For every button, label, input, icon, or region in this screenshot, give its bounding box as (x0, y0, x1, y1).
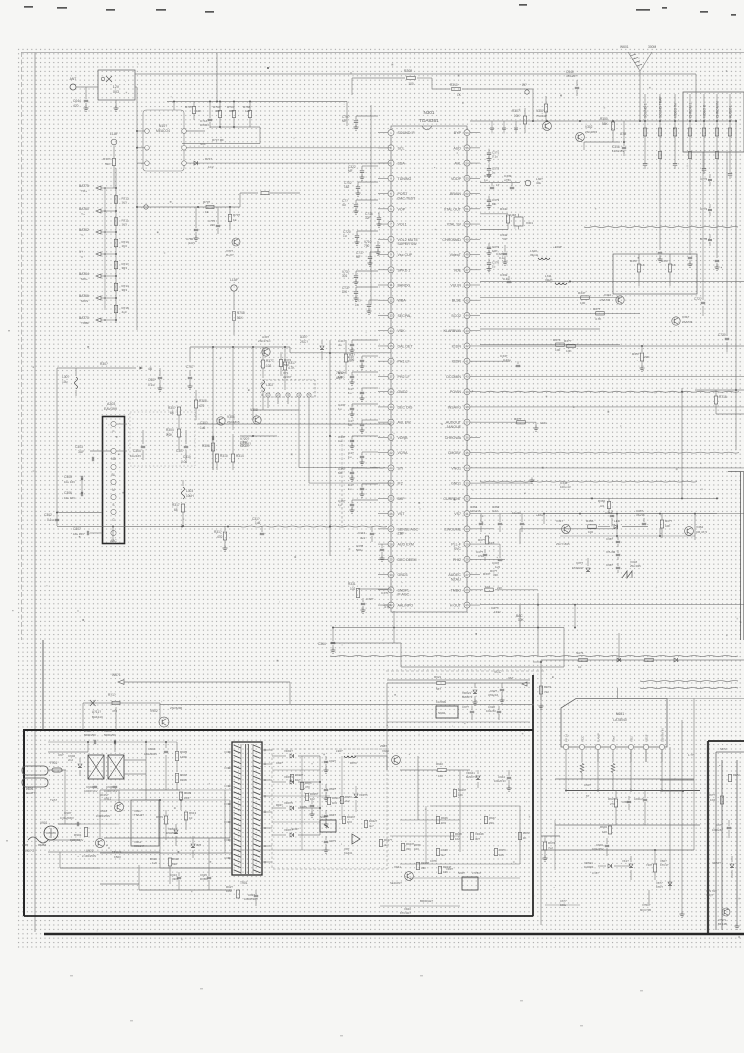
svg-text:CHROM 1: CHROM 1 (688, 103, 692, 118)
svg-text:DEC DIG: DEC DIG (398, 405, 413, 409)
svg-text:V941: V941 (394, 865, 401, 869)
svg-text:Y-: Y- (81, 233, 84, 237)
svg-text:R340: R340 (500, 207, 508, 211)
svg-text:MEACO4: MEACO4 (156, 129, 170, 133)
transistor V303 cluster (543, 122, 552, 131)
svg-text:360: 360 (215, 109, 220, 113)
page bottom heavy rule (44, 933, 744, 936)
svg-text:+100P: +100P (553, 245, 562, 249)
svg-text:BAT75: BAT75 (79, 184, 89, 188)
svg-text:10K: 10K (196, 109, 201, 113)
svg-text:C9?: C9? (58, 753, 64, 757)
svg-text:?N4148: ?N4148 (536, 114, 547, 118)
svg-text:1K6: 1K6 (347, 820, 352, 824)
svg-text:1K: 1K (523, 836, 527, 840)
svg-text:C94?: C94? (329, 813, 336, 817)
transistor V311 2SA733 (672, 317, 680, 325)
svg-text:R60?: R60? (608, 797, 615, 801)
svg-text:NZALI: NZALI (451, 577, 461, 581)
diode VD9?7 (272, 834, 286, 836)
capacitor C7? decoupling (356, 199, 378, 201)
svg-text:470: 470 (199, 404, 205, 408)
resistor R308 10K (523, 116, 526, 124)
svg-text:R6?4: R6?4 (548, 841, 555, 845)
svg-text:7u2: 7u2 (548, 846, 553, 850)
svg-text:4u7: 4u7 (441, 853, 446, 857)
svg-text:R34?: R34? (630, 259, 638, 263)
svg-text:470: 470 (217, 535, 223, 539)
mains plug X901 (22, 766, 48, 775)
svg-text:R?1?: R?1? (108, 693, 116, 697)
resistor R368 1K5 (480, 528, 494, 530)
svg-text:1u: 1u (355, 303, 359, 307)
svg-text:V?0?1: V?0?1 (718, 918, 727, 922)
wire left vertical x43 lower (42, 640, 44, 730)
svg-text:VD92?: VD92? (284, 749, 293, 753)
resistor R304 68 (177, 407, 180, 415)
IC pin 11 BANDG (388, 282, 394, 288)
resistor R9?9 (494, 849, 497, 856)
svg-text:BLSE: BLSE (452, 299, 462, 303)
svg-text:L1AF: L1AF (110, 132, 118, 136)
IC pin 52 BRAIN (464, 191, 470, 197)
transformer pins left (224, 751, 232, 753)
wires power input mesh (48, 751, 88, 753)
wire NB row y436 (240, 435, 277, 437)
right edge box top (683, 92, 744, 152)
svg-text:470u/6?: 470u/6? (566, 74, 577, 78)
svg-text:C36?: C36? (606, 563, 613, 567)
diode VD92? (272, 755, 286, 757)
svg-text:2.1PA/250V: 2.1PA/250V (82, 854, 96, 858)
wire secondary rows (272, 769, 320, 771)
svg-text:1000u/6?: 1000u/6? (712, 828, 723, 832)
svg-text:RMB4: RMB4 (38, 843, 47, 847)
svg-text:10M: 10M (226, 889, 232, 893)
wire secondary vertical x302 (301, 756, 303, 850)
svg-text:VD9?5: VD9?5 (284, 801, 293, 805)
svg-text:MO+: MO+ (81, 277, 88, 281)
resistor RS4 (438, 867, 441, 874)
svg-text:DCOMIN: DCOMIN (446, 375, 461, 379)
svg-text:SOUND IF: SOUND IF (398, 131, 416, 135)
svg-text:DXIRJ: DXIRJ (200, 123, 209, 127)
svg-text:0.1u: 0.1u (492, 155, 498, 159)
scan speckles (349, 548, 351, 550)
ground below tuner (115, 100, 117, 108)
wire power mesh y800 (100, 799, 230, 801)
IC pin 37 AUDOUT (464, 419, 470, 425)
svg-text:10K: 10K (458, 793, 463, 797)
svg-text:IO1IN: IO1IN (452, 344, 462, 348)
svg-text:102: 102 (295, 778, 300, 782)
svg-text:V30?: V30? (536, 109, 544, 113)
svg-text:KA7809: KA7809 (436, 700, 446, 704)
svg-text:TMBO: TMBO (451, 588, 462, 592)
wavy wire GND1 row (480, 480, 697, 483)
connector A303 EAV399 body (103, 417, 125, 544)
svg-text:790: 790 (364, 244, 370, 248)
scan marks top edge (24, 6, 33, 8)
svg-text:4u3: 4u3 (122, 310, 127, 314)
svg-text:10K: 10K (514, 114, 521, 118)
svg-text:PH2 LF: PH2 LF (398, 375, 411, 379)
driver sub box (131, 800, 159, 846)
wire left bus x57 (56, 368, 58, 526)
resistor R921 on vcc (437, 681, 446, 684)
svg-text:10: 10 (578, 665, 582, 669)
svg-text:10uH: 10uH (186, 494, 194, 498)
svg-text:AAL/NPO: AAL/NPO (398, 604, 414, 608)
IC pin 32 CURRENT (464, 495, 470, 501)
svg-text:PP 1A: PP 1A (564, 734, 568, 742)
capacitor C4? decoupling low (362, 355, 378, 357)
resistor R604 100 (608, 826, 611, 834)
resistor R377 103 (261, 360, 264, 368)
svg-text:PHI2: PHI2 (453, 558, 461, 562)
wire cluster to pin15 (289, 347, 291, 353)
svg-text:51K: 51K (237, 316, 244, 320)
IC pin 17 PH2 LF (388, 373, 394, 379)
IC pin 31 VS7 (464, 511, 470, 517)
scan marks bottom area (70, 975, 73, 976)
IC pin 10 SPKD 1 (388, 267, 394, 273)
svg-text:R308: R308 (199, 399, 207, 403)
plug X902 (28, 837, 48, 843)
IC pin 27 SENSE AGC (388, 526, 394, 532)
transistor V940 (392, 756, 401, 765)
svg-text:C93?: C93? (329, 787, 336, 791)
svg-text:1K6: 1K6 (710, 798, 716, 802)
svg-text:C604: C604 (596, 843, 603, 847)
svg-text:R30?: R30? (100, 362, 108, 366)
IC pin 2 SCL (388, 145, 394, 151)
resistor R702 1E (228, 215, 231, 222)
svg-text:1N4148: 1N4148 (166, 831, 176, 835)
svg-text:C910: C910 (100, 809, 108, 813)
svg-text:301: 301 (342, 274, 348, 278)
capacitor C3?3 right stub (488, 196, 490, 200)
node AUDIO L vertical (729, 94, 731, 170)
resistor R702 10K on rail (192, 107, 195, 114)
transistor V911 3DD (114, 802, 123, 811)
resistor R711 ladder (114, 218, 117, 226)
svg-text:1u: 1u (348, 359, 352, 363)
svg-text:R34?: R34? (578, 291, 586, 295)
svg-text:R31?: R31? (214, 530, 222, 534)
svg-text:10K: 10K (566, 349, 572, 353)
IC pin 19 DEC DIG (388, 404, 394, 410)
capacitor C3?5 right stub (488, 259, 490, 263)
svg-text:C904: C904 (148, 747, 156, 751)
IC pin 42 IO1IN (464, 343, 470, 349)
svg-text:3R5: 3R5 (196, 843, 202, 847)
wire SAW pin5 to BKP row (308, 398, 310, 484)
svg-text:10: 10 (189, 816, 193, 820)
svg-text:SE110N?: SE110N? (390, 881, 402, 885)
svg-text:R92?: R92? (276, 803, 283, 807)
wire row y853 power (100, 852, 232, 854)
IC pin 30 GND3 (388, 572, 394, 578)
svg-text:C30?: C30? (148, 378, 156, 382)
svg-text:1000P/1KV: 1000P/1KV (84, 789, 98, 793)
IC pin 46 VULIN (464, 282, 470, 288)
svg-text:SVC: SVC (454, 547, 462, 551)
svg-text:BL: BL (112, 473, 116, 477)
dashed vertical x342 (341, 435, 343, 529)
svg-text:10u 16V: 10u 16V (64, 480, 75, 484)
svg-text:R3?3: R3?3 (553, 338, 561, 342)
resistor R940 102 (438, 768, 447, 771)
junction on y627 (393, 627, 395, 629)
svg-text:103: 103 (266, 364, 272, 368)
svg-text:3R3: 3R3 (122, 266, 128, 270)
svg-text:0.1u: 0.1u (47, 518, 54, 522)
resistor R615 (539, 686, 542, 694)
svg-text:2SB?: 2SB? (380, 744, 387, 748)
svg-text:R3??: R3?? (665, 519, 673, 523)
diode VD935 (354, 794, 358, 797)
IC N601 pin 5 (628, 744, 633, 749)
transistor V319 CR 4X (685, 527, 694, 536)
svg-text:L?: L? (496, 183, 500, 187)
svg-text:2SA733: 2SA733 (600, 298, 611, 302)
resistor R707b (261, 191, 269, 194)
resistor RS0 (290, 775, 293, 782)
resistor RS3 (401, 844, 404, 851)
IC N101 SDA wire to main IC (182, 161, 187, 166)
capacitor C46? decoupling low (352, 499, 378, 501)
svg-text:LED: LED (614, 519, 621, 523)
svg-text:R920?: R920? (295, 773, 304, 777)
right section parts (721, 760, 723, 930)
svg-text:C36?: C36? (606, 537, 613, 541)
wire y207 tail up (239, 193, 241, 207)
svg-text:56?: 56? (436, 687, 441, 691)
IC pin 34 VNG1 (464, 465, 470, 471)
IC pin 44 SCO2 (464, 312, 470, 318)
fuse F901 (48, 769, 66, 771)
resistor R707 360 (232, 111, 235, 118)
svg-text:VOL1: VOL1 (398, 223, 407, 227)
svg-text:DAC TEST: DAC TEST (398, 196, 417, 200)
svg-text:INSAVG: INSAVG (448, 405, 462, 409)
svg-text:U7B: U7B (620, 132, 626, 136)
svg-text:KTC311?: KTC311? (400, 911, 412, 915)
svg-text:1u5: 1u5 (255, 521, 261, 525)
svg-text:GND3: GND3 (398, 573, 408, 577)
crystal X301 body (514, 217, 523, 226)
svg-text:C92?: C92? (329, 759, 336, 763)
svg-text:2n2: 2n2 (68, 758, 73, 762)
wire y142 segment (584, 141, 620, 143)
svg-text:4.7u: 4.7u (384, 605, 390, 609)
svg-text:C92?: C92? (276, 761, 283, 765)
svg-text:SDA: SDA (398, 162, 406, 166)
svg-text:470: 470 (112, 709, 117, 713)
svg-text:VD6??: VD6?? (712, 861, 721, 865)
svg-text:22K: 22K (497, 586, 502, 590)
svg-text:R907: R907 (180, 773, 188, 777)
svg-text:BAT70: BAT70 (79, 316, 89, 320)
svg-text:182: 182 (344, 185, 350, 189)
svg-text:B4 14B: B4 14B (718, 922, 727, 926)
svg-text:u?31: u?31 (504, 178, 511, 182)
svg-text:C60?: C60? (584, 783, 591, 787)
svg-text:10u/16: 10u/16 (512, 511, 521, 515)
capacitor C3?4 right stub (488, 243, 490, 247)
svg-text:R30?: R30? (168, 406, 176, 410)
hatched long wire y656 (330, 656, 738, 657)
wire rail y101 to IC (167, 101, 347, 103)
svg-text:BAT64: BAT64 (79, 272, 89, 276)
transistor V306 2SC1815 (217, 417, 225, 425)
IC N601 pin 2 (579, 744, 584, 749)
svg-text:22K: 22K (644, 355, 650, 359)
svg-text:SA?1: SA?1 (576, 651, 584, 655)
IC pin 12 WBA (388, 297, 394, 303)
bottom left of IC resistor R331 102 (356, 589, 359, 598)
svg-text:0.33N/250V: 0.33N/250V (96, 814, 110, 818)
svg-text:100u 4V: 100u 4V (560, 485, 571, 489)
svg-text:V911: V911 (104, 797, 111, 801)
antenna input ANT1 (70, 84, 76, 90)
IC pin 4 TUNING (388, 175, 394, 181)
svg-text:R70?: R70? (203, 200, 211, 204)
degauss fuse cluster (83, 702, 125, 704)
svg-text:100u/35V: 100u/35V (592, 847, 604, 851)
svg-text:2SCY1815: 2SCY1815 (556, 542, 570, 546)
svg-text:MF: MF (356, 255, 361, 259)
svg-text:MF: MF (348, 423, 353, 427)
connector A303 pin M (111, 479, 116, 484)
svg-text:VCC: VCC (580, 736, 584, 742)
transistor V308 detail (253, 416, 261, 424)
svg-text:1u: 1u (484, 178, 488, 182)
svg-text:W?: W? (522, 83, 527, 87)
wire power mesh y868 ext (60, 867, 232, 869)
wire N601 top edge to right (667, 698, 744, 700)
capacitor C702 decoupling (358, 181, 378, 183)
resistor R366 10K (660, 520, 663, 528)
ground GND1 pin (480, 482, 532, 484)
diode VD6x1 on y660 (617, 658, 620, 662)
IC N101 left pin 3 (145, 161, 150, 166)
IC N601 pin 3 (595, 744, 600, 749)
svg-text:IF2: IF2 (398, 482, 403, 486)
resistor R309 56K (544, 104, 547, 112)
IC pin 22 VCRA (388, 450, 394, 456)
diode VD6x2 on y660 (674, 658, 677, 662)
IC pin 54 AVL (464, 160, 470, 166)
svg-text:R6?4: R6?4 (544, 685, 551, 689)
IC pin 51 XTAL OUT (464, 206, 470, 212)
svg-text:TPLUS: TPLUS (112, 850, 121, 854)
IC pin 30 EWOUME (464, 526, 470, 532)
svg-text:SECPAL: SECPAL (398, 314, 412, 318)
svg-text:10u/16V: 10u/16V (130, 454, 141, 458)
IC pin 45 BLSE (464, 297, 470, 303)
svg-text:L30?: L30? (62, 375, 70, 379)
svg-text:TDA8361: TDA8361 (419, 118, 439, 123)
junction dots on rails (267, 67, 269, 69)
resistor R606 7u2 gnd (543, 842, 546, 850)
transistor V701 right edge cluster (232, 238, 240, 246)
svg-text:C944: C944 (498, 775, 505, 779)
wire A303 rows (117, 450, 128, 452)
wires pin rows to resistors (480, 297, 620, 299)
IC pin 29 DEC DEEM (388, 556, 394, 562)
svg-text:0.06: 0.06 (181, 460, 187, 464)
svg-text:NB: NB (111, 457, 115, 461)
svg-text:0.1u: 0.1u (499, 256, 505, 260)
wire H OUT to right (480, 604, 744, 606)
svg-text:330: 330 (489, 821, 494, 825)
IC pin 26 VST (388, 511, 394, 517)
IC pin 6 VOP (388, 206, 394, 212)
wire top power rail y704 (125, 702, 160, 704)
resistor R311 4.7K (283, 362, 286, 370)
resistor R952 (518, 833, 521, 840)
svg-text:1N4?: 1N4? (292, 827, 299, 831)
page frame left outer line (21, 52, 23, 640)
IC pin 16 PH1 LF (388, 358, 394, 364)
svg-text:K500: K500 (114, 855, 121, 859)
svg-text:VULIN: VULIN (450, 284, 461, 288)
svg-text:VD9?: VD9? (446, 867, 453, 871)
svg-text:IO2IN: IO2IN (452, 360, 462, 364)
svg-text:102: 102 (350, 587, 356, 591)
diode VD9?5 (272, 807, 286, 809)
VCC rail from secondary (387, 679, 530, 681)
capacitor C4? decoupling low (362, 451, 378, 453)
svg-text:100: 100 (408, 82, 414, 86)
svg-text:V6Q?: V6Q? (706, 893, 714, 897)
transistor V310 2SA733 (616, 296, 624, 304)
svg-text:C707: C707 (186, 365, 194, 369)
resistor R37x 33K AUDEC (480, 558, 505, 560)
IC pin 33 GND1 (464, 480, 470, 486)
bus x105 arrows (104, 188, 106, 310)
svg-text:C906: C906 (106, 785, 114, 789)
svg-text:740?: 740? (646, 863, 653, 867)
svg-text:POVIN: POVIN (450, 390, 462, 394)
svg-text:A?11?: A?11? (92, 710, 101, 714)
wire VS7 y518 (480, 513, 744, 515)
connector A303 pin P (111, 421, 116, 426)
right deflection enclosure (707, 741, 709, 933)
svg-text:1K5: 1K5 (184, 796, 190, 800)
svg-text:3.15?: 3.15? (592, 871, 599, 875)
wire bus x137 to rail (135, 86, 137, 88)
svg-text:EWOUME: EWOUME (444, 527, 461, 531)
wire bottom power mesh (160, 867, 232, 869)
stub caps under y121 rail (491, 121, 493, 127)
antenna W601 symbol (628, 52, 640, 71)
svg-text:1u: 1u (338, 503, 342, 507)
svg-text:0.22: 0.22 (492, 509, 498, 513)
resistor R946 (436, 817, 439, 824)
svg-text:V902: V902 (150, 709, 158, 713)
svg-text:1000u?: 1000u? (634, 797, 644, 801)
resistor RS7 (379, 840, 382, 847)
wire y121 right rail (470, 120, 736, 122)
diode VD915 (191, 844, 195, 847)
capacitor C7? decoupling (369, 299, 378, 301)
wire bus x371 upper (370, 105, 372, 305)
node circle L1AF (111, 139, 117, 145)
IC pin 24 IF2 (388, 480, 394, 486)
